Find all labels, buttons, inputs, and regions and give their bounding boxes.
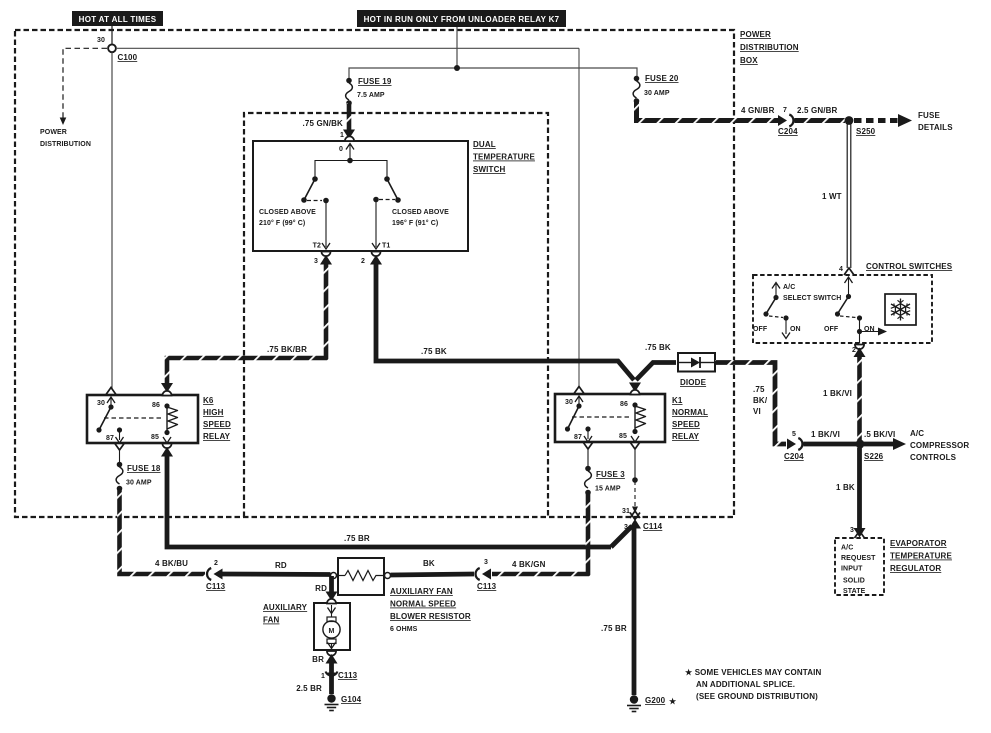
dashed wire to power distribution: [60, 48, 107, 125]
svg-text:VI: VI: [753, 407, 761, 416]
node 30 label: [97, 37, 105, 44]
svg-text:.75 BK: .75 BK: [421, 347, 447, 356]
wire K1 pin 85 to pin 31: [622, 448, 638, 515]
wire pin 2 to S226 (1 BK/VI): [823, 353, 860, 441]
wire fuse 19 to dual temperature switch pin 1: [340, 103, 355, 139]
K6 pin 85: [151, 430, 173, 457]
terminal T1 wire: [372, 200, 390, 250]
svg-text:HOT IN RUN ONLY FROM UNLOADER: HOT IN RUN ONLY FROM UNLOADER RELAY K7: [364, 15, 560, 24]
wire from hot-at-all-times down to C100: [111, 26, 113, 44]
connector C113 pin 1: [321, 671, 358, 680]
svg-text:87: 87: [574, 434, 582, 441]
left temp switch contact: [301, 176, 329, 203]
a/c request input solid state box: [835, 538, 884, 595]
hot in run label: [357, 10, 566, 27]
svg-text:S250: S250: [856, 127, 876, 136]
svg-text:★ SOME VEHICLES MAY CONTAIN: ★ SOME VEHICLES MAY CONTAIN: [685, 668, 821, 677]
wire resistor to C113 pin 3 (BK): [391, 559, 475, 575]
svg-text:TEMPERATURE: TEMPERATURE: [473, 153, 535, 162]
svg-text:85: 85: [151, 434, 159, 441]
svg-text:RD: RD: [275, 561, 287, 570]
svg-text:C113: C113: [477, 582, 497, 591]
label closed above 210: [259, 209, 316, 227]
svg-text:30: 30: [565, 399, 573, 406]
hot at all times label: [72, 11, 163, 26]
svg-text:EVAPORATOR: EVAPORATOR: [890, 539, 947, 548]
svg-text:T1: T1: [382, 243, 390, 250]
svg-text:OFF: OFF: [824, 326, 839, 333]
switch pin 3: [314, 252, 332, 266]
diode: [678, 353, 715, 387]
wire C114 to ground bus and G200: [601, 526, 634, 695]
svg-text:.75 BR: .75 BR: [344, 534, 370, 543]
K6 switch blade: [96, 407, 161, 433]
svg-text:REQUEST: REQUEST: [841, 555, 876, 562]
svg-text:SELECT SWITCH: SELECT SWITCH: [783, 295, 841, 302]
svg-text:CONTROL SWITCHES: CONTROL SWITCHES: [866, 262, 953, 271]
auxiliary fan blower resistor: [331, 558, 391, 595]
label auxiliary fan: [263, 603, 308, 625]
wire diode to C204 pin 5 (.75 BK/VI): [715, 363, 786, 445]
svg-text:A/C: A/C: [910, 429, 924, 438]
svg-text:3: 3: [314, 258, 318, 265]
svg-text:C114: C114: [643, 522, 663, 531]
svg-text:.75: .75: [753, 385, 765, 394]
svg-text:1 BK/VI: 1 BK/VI: [823, 389, 852, 398]
label 2.5 GN/BR: [797, 106, 838, 115]
fan ground wire (BR): [312, 651, 337, 694]
svg-text:T2: T2: [313, 243, 321, 250]
relay K6 box: [87, 395, 231, 443]
K1 relay coil: [635, 405, 646, 432]
svg-text:SWITCH: SWITCH: [473, 165, 506, 174]
svg-text:7.5 AMP: 7.5 AMP: [357, 92, 385, 99]
svg-text:1: 1: [340, 132, 344, 139]
K1 pin 86: [620, 383, 641, 409]
svg-text:7: 7: [783, 107, 787, 114]
wire S226 to evaporator regulator (1 BK): [836, 440, 864, 530]
power distribution box dashed border: [15, 30, 734, 517]
fuse feed wire: [349, 68, 637, 79]
svg-text:DISTRIBUTION: DISTRIBUTION: [740, 43, 799, 52]
ground G200: [627, 695, 677, 711]
pin 4 entry: [839, 266, 854, 296]
svg-text:.5 BK/VI: .5 BK/VI: [864, 430, 895, 439]
wire to A/C compressor controls (.5 BK/VI): [864, 429, 969, 462]
svg-text:RD: RD: [315, 584, 327, 593]
svg-text:CLOSED ABOVE: CLOSED ABOVE: [392, 209, 449, 216]
label 4 GN/BR: [741, 106, 775, 115]
wire from hot-in-run label down: [456, 27, 458, 68]
svg-text:2: 2: [214, 560, 218, 567]
svg-text:NORMAL SPEED: NORMAL SPEED: [390, 600, 456, 609]
svg-text:RELAY: RELAY: [203, 432, 231, 441]
svg-text:SPEED: SPEED: [203, 420, 231, 429]
svg-text:AUXILIARY: AUXILIARY: [263, 603, 308, 612]
svg-text:86: 86: [620, 401, 628, 408]
fuse 18: [116, 449, 161, 491]
svg-text:G200: G200: [645, 696, 666, 705]
svg-text:.75 GN/BK: .75 GN/BK: [303, 119, 344, 128]
svg-text:2.5 BR: 2.5 BR: [296, 684, 322, 693]
svg-text:★: ★: [669, 697, 677, 706]
svg-text:FAN: FAN: [263, 616, 280, 625]
svg-text:C204: C204: [784, 452, 804, 461]
svg-text:3: 3: [850, 527, 854, 534]
svg-text:CLOSED ABOVE: CLOSED ABOVE: [259, 209, 316, 216]
svg-text:15 AMP: 15 AMP: [595, 486, 621, 493]
wire fuse 20 to S250: [637, 101, 846, 121]
connector C113 pin 2: [206, 560, 226, 591]
svg-text:FUSE 3: FUSE 3: [596, 470, 625, 479]
svg-text:DIODE: DIODE: [680, 378, 707, 387]
control switches dashed box: [753, 262, 953, 343]
a/c select switch left half: [753, 283, 841, 339]
wire T1 to diode and K1 pin 86 (.75 BK): [376, 261, 676, 380]
svg-text:HOT AT ALL TIMES: HOT AT ALL TIMES: [79, 15, 157, 24]
label POWER DISTRIBUTION BOX: [740, 30, 799, 65]
svg-text:C204: C204: [778, 127, 798, 136]
svg-text:1 BK: 1 BK: [836, 483, 855, 492]
svg-text:K6: K6: [203, 396, 214, 405]
right temp switch contact: [373, 176, 401, 203]
svg-text:C100: C100: [118, 53, 138, 62]
svg-text:FUSE: FUSE: [918, 111, 940, 120]
svg-text:AN ADDITIONAL SPLICE.: AN ADDITIONAL SPLICE.: [696, 680, 795, 689]
pin 3 entry solid state: [850, 527, 866, 538]
dual temperature switch box: [253, 141, 468, 251]
label DUAL TEMPERATURE SWITCH: [473, 140, 535, 174]
svg-text:SPEED: SPEED: [672, 420, 700, 429]
svg-text:NORMAL: NORMAL: [672, 408, 708, 417]
svg-text:BLOWER RESISTOR: BLOWER RESISTOR: [390, 612, 471, 621]
svg-text:ON: ON: [790, 326, 801, 333]
svg-text:BR: BR: [312, 655, 324, 664]
svg-text:2.5 GN/BR: 2.5 GN/BR: [797, 106, 838, 115]
svg-text:.75 BK: .75 BK: [645, 343, 671, 352]
svg-text:210° F (99° C): 210° F (99° C): [259, 219, 305, 227]
switch pin 2: [361, 252, 382, 266]
wire C204 to S226 (1 BK/VI): [804, 430, 857, 444]
svg-text:RELAY: RELAY: [672, 432, 700, 441]
svg-text:DISTRIBUTION: DISTRIBUTION: [40, 141, 91, 148]
svg-text:1 BK/VI: 1 BK/VI: [811, 430, 840, 439]
svg-text:OFF: OFF: [753, 326, 768, 333]
svg-text:FUSE 18: FUSE 18: [127, 464, 161, 473]
label blower resistor: [390, 587, 471, 633]
fuse 3: [585, 448, 626, 495]
label 2.5 BR: [296, 684, 322, 693]
connector C114: [624, 511, 663, 531]
svg-text:CONTROLS: CONTROLS: [910, 453, 957, 462]
svg-text:86: 86: [152, 402, 160, 409]
svg-text:BOX: BOX: [740, 56, 758, 65]
svg-text:A/C: A/C: [783, 284, 795, 291]
fuse 20: [633, 74, 679, 104]
K1 switch blade: [565, 406, 629, 432]
svg-text:G104: G104: [341, 695, 362, 704]
svg-text:COMPRESSOR: COMPRESSOR: [910, 441, 969, 450]
label POWER DISTRIBUTION: [40, 129, 91, 148]
splice S250: [845, 116, 876, 136]
wire fuse 3 to C113 (4 BK/GN): [492, 493, 588, 574]
K1 pin 30: [565, 387, 584, 409]
terminal T2 wire: [313, 201, 330, 250]
connector C113 pin 3: [475, 559, 496, 591]
svg-text:A/C: A/C: [841, 545, 853, 552]
svg-text:30: 30: [97, 400, 105, 407]
svg-text:STATE: STATE: [843, 588, 866, 595]
K1 pin 85: [619, 429, 640, 449]
svg-text:(SEE GROUND DISTRIBUTION): (SEE GROUND DISTRIBUTION): [696, 692, 818, 701]
K1 pin 87: [574, 426, 593, 449]
wire fuse 18 to C113 (4 BK/BU): [120, 489, 206, 574]
wire C100 down to relay K6 pin 30: [111, 53, 113, 390]
K6 pin 86: [152, 383, 173, 409]
svg-text:30 AMP: 30 AMP: [126, 480, 152, 487]
svg-text:INPUT: INPUT: [841, 566, 863, 573]
connector C100: [108, 44, 138, 62]
svg-text:REGULATOR: REGULATOR: [890, 564, 941, 573]
svg-text:4: 4: [839, 266, 843, 273]
wire down to relay K1 pin 30: [578, 48, 580, 388]
a/c select switch right half: [824, 294, 875, 343]
svg-text:2: 2: [361, 258, 365, 265]
label closed above 196: [392, 209, 449, 227]
svg-text:1: 1: [321, 673, 325, 680]
wire RD down to auxiliary fan: [315, 576, 337, 601]
svg-text:HIGH: HIGH: [203, 408, 224, 417]
wire C113 to blower resistor (RD): [222, 561, 331, 575]
dashed wire to fuse details: [854, 111, 953, 132]
relay K1 box: [555, 394, 708, 442]
svg-text:87: 87: [106, 435, 114, 442]
pin 2 exit: [852, 345, 866, 358]
wire 1 WT down to control switches: [822, 124, 851, 268]
svg-text:DUAL: DUAL: [473, 140, 496, 149]
svg-text:BK: BK: [423, 559, 435, 568]
svg-text:POWER: POWER: [740, 30, 771, 39]
svg-text:85: 85: [619, 433, 627, 440]
auxiliary fan motor: [314, 599, 350, 650]
svg-text:6 OHMS: 6 OHMS: [390, 626, 418, 633]
label .75 GN/BK: [303, 119, 344, 128]
svg-text:M: M: [329, 628, 335, 635]
svg-text:S226: S226: [864, 452, 884, 461]
ground G104: [325, 694, 362, 710]
svg-text:FUSE 20: FUSE 20: [645, 74, 679, 83]
svg-text:POWER: POWER: [40, 129, 67, 136]
K6 pin 87: [106, 427, 125, 450]
snowflake icon box: [885, 294, 916, 325]
svg-text:AUXILIARY FAN: AUXILIARY FAN: [390, 587, 453, 596]
svg-text:31: 31: [622, 508, 630, 515]
svg-text:1 WT: 1 WT: [822, 192, 842, 201]
junction and arrow to a/c icon: [857, 328, 887, 336]
svg-text:4 BK/BU: 4 BK/BU: [155, 559, 188, 568]
svg-text:4 GN/BR: 4 GN/BR: [741, 106, 775, 115]
svg-text:.75 BK/BR: .75 BK/BR: [267, 345, 307, 354]
K6 pin 30: [97, 388, 116, 410]
inner component dashed boundary: [244, 113, 548, 517]
svg-text:0: 0: [339, 146, 343, 153]
fuse 19: [346, 77, 392, 106]
label EVAPORATOR TEMPERATURE REGULATOR: [890, 539, 952, 573]
svg-text:BK/: BK/: [753, 396, 768, 405]
svg-text:K1: K1: [672, 396, 683, 405]
svg-text:4 BK/GN: 4 BK/GN: [512, 560, 546, 569]
K6 relay coil: [167, 406, 178, 433]
svg-text:5: 5: [792, 431, 796, 438]
splice S226: [856, 440, 884, 461]
svg-text:DETAILS: DETAILS: [918, 123, 953, 132]
wire T2 to K6 pin 86 (.75 BK/BR): [167, 261, 326, 384]
svg-text:.75 BR: .75 BR: [601, 624, 627, 633]
svg-text:196° F (91° C): 196° F (91° C): [392, 219, 438, 227]
svg-text:C113: C113: [206, 582, 226, 591]
footnote: [685, 668, 821, 701]
svg-text:TEMPERATURE: TEMPERATURE: [890, 552, 952, 561]
svg-text:30: 30: [97, 37, 105, 44]
svg-text:FUSE 19: FUSE 19: [358, 77, 392, 86]
svg-text:C113: C113: [338, 671, 358, 680]
switch common feed: [315, 144, 387, 179]
svg-text:SOLID: SOLID: [843, 578, 865, 585]
svg-text:30 AMP: 30 AMP: [644, 90, 670, 97]
svg-text:3: 3: [484, 559, 488, 566]
connector C204 pin 5: [784, 431, 804, 461]
wire C100 to the right: [116, 47, 579, 49]
pin 1 terminal on switch: [339, 136, 354, 153]
junction: [454, 65, 460, 71]
wire K6 pin 85 down to ground bus (.75 BR): [167, 452, 611, 547]
connector C204 pin 7: [778, 107, 798, 136]
